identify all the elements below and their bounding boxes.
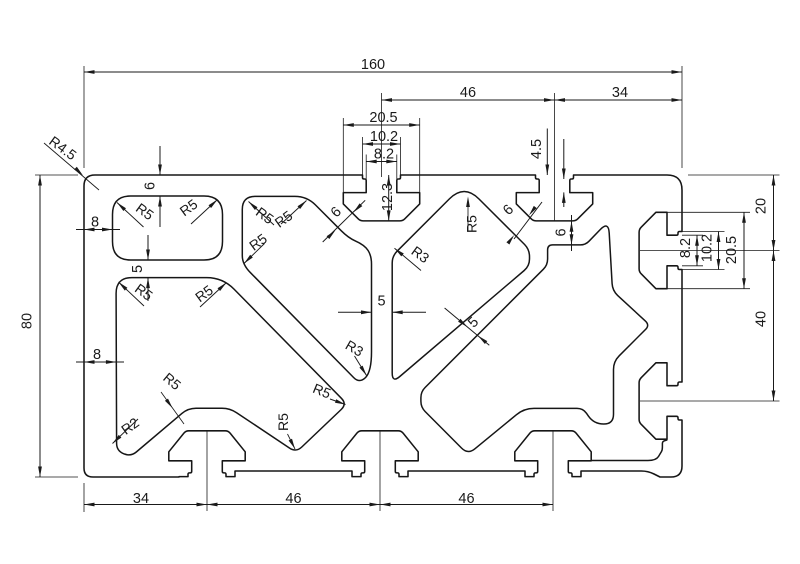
dim 6 wall under slot2 [554,215,574,251]
dim 5 web [338,294,426,315]
svg-text:10.2: 10.2 [700,234,716,262]
dim 160 top [84,57,682,74]
svg-text:20: 20 [754,198,770,214]
svg-text:4.5: 4.5 [529,139,545,159]
leader R2 cavB BL [113,414,143,443]
profile outline [84,175,682,477]
svg-text:R5: R5 [275,413,291,431]
dim 20.5 top slot [343,110,419,127]
dim 12.3 slot depth [380,175,396,221]
cavity A rounded rectangle [113,196,223,260]
svg-text:34: 34 [612,85,628,101]
dim 46 bottom left [207,491,380,507]
svg-text:10.2: 10.2 [370,129,398,145]
cavity B [116,278,344,455]
dim 4.5 lip depth [529,129,566,208]
svg-text:34: 34 [133,491,149,507]
dim 8 wall upper [76,215,120,232]
dim 8.2 top slot [366,147,397,164]
svg-text:8: 8 [91,215,99,231]
dim 34 bottom [84,491,207,507]
leader R3 cavC finger [343,337,367,376]
leader R5 cavA TL [117,200,157,227]
leader R5 cavB plateau [160,369,184,424]
dim 20.5 right slot [724,212,746,288]
dim 8 wall lower [76,347,124,364]
leader R5 cavB vbottom [275,413,295,449]
svg-text:40: 40 [754,311,770,327]
cavity C [242,196,371,380]
leader R5 cavD peak [464,197,480,233]
dim 5 diagonal rib [445,308,490,345]
svg-text:8: 8 [93,347,101,363]
svg-text:R5: R5 [464,215,480,233]
leader R5 cavC TR [272,201,307,231]
dim 6 chamfer slot2 [500,202,542,245]
dim 20 right [754,175,776,251]
leader R5 cavC TL [249,202,278,228]
svg-text:6: 6 [143,182,159,190]
leader R5 cavB TL [119,280,157,306]
svg-text:5: 5 [130,265,146,273]
dim 34 top [555,85,683,102]
leader R5 cavB diag end [311,380,346,404]
dim 40 right [754,251,776,402]
svg-text:8.2: 8.2 [374,147,394,163]
dim 6 top wall left [143,146,162,227]
dim 6 chamfer slot1 [323,200,366,242]
svg-text:5: 5 [377,294,385,310]
leader R5 cavB TR [192,282,226,307]
leader R3 cavD TL [395,243,433,271]
dim 10.2 top slot [363,129,401,146]
leader R4.5 corner [44,133,99,190]
cavity D [392,192,529,380]
svg-text:46: 46 [285,491,301,507]
extension lines [35,66,780,512]
dim 80 left [20,175,42,477]
dim 46 bottom right [380,491,553,507]
dim 10.2 right slot [700,232,721,270]
dim 8.2 right slot [678,235,699,266]
svg-text:46: 46 [458,491,474,507]
leader R5 cavC BL [244,230,270,263]
leader R5 cavA TR [177,196,218,224]
svg-text:46: 46 [460,85,476,101]
cavity E [421,226,648,451]
svg-text:20.5: 20.5 [724,236,740,264]
svg-text:6: 6 [554,228,570,236]
cavity G floor and right wall [591,440,667,461]
dim 46 top [382,85,555,102]
svg-text:160: 160 [361,57,385,73]
svg-text:12.3: 12.3 [380,183,396,211]
dim 5 wall A-B [130,235,150,301]
svg-text:20.5: 20.5 [369,110,397,126]
svg-text:80: 80 [20,313,36,329]
svg-text:8.2: 8.2 [678,238,694,258]
